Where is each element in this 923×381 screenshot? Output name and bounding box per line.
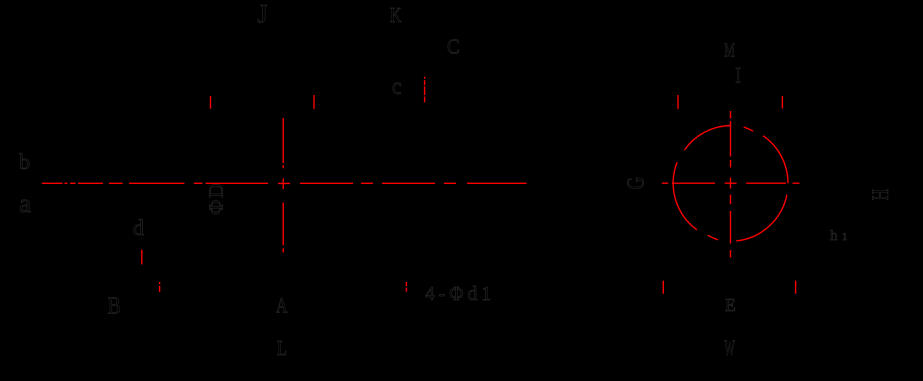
tick M-left xyxy=(677,95,679,109)
svg-text:C: C xyxy=(447,35,460,59)
svg-text:a: a xyxy=(19,189,31,218)
tick c-mark (dashed) xyxy=(424,77,426,103)
svg-text:b: b xyxy=(19,149,30,174)
wire: left-view horizontal centerline a-b xyxy=(42,182,527,184)
node: center cross of end view xyxy=(725,178,737,189)
tick d-mark xyxy=(141,250,143,265)
tick 4-mark (dashed) xyxy=(405,282,407,292)
tick J-mark xyxy=(210,96,212,109)
tick E-left xyxy=(662,281,664,294)
wire: end-view horizontal centerline G xyxy=(662,182,800,184)
node O: center cross of left view xyxy=(278,179,290,190)
svg-text:E: E xyxy=(725,295,736,315)
svg-text:G: G xyxy=(624,177,650,190)
tick M-right xyxy=(781,96,783,109)
wire: left-view vertical centerline xyxy=(282,118,284,253)
svg-text:M: M xyxy=(724,39,735,61)
svg-text:1: 1 xyxy=(842,232,847,243)
tick K-mark xyxy=(313,95,315,109)
svg-text:B: B xyxy=(108,294,121,320)
svg-text:H: H xyxy=(868,189,893,201)
wire: end-view vertical centerline xyxy=(730,111,732,258)
svg-text:A: A xyxy=(276,292,288,317)
tick B-mark (dashed) xyxy=(159,282,161,292)
svg-text:W: W xyxy=(724,335,735,360)
svg-text:J: J xyxy=(258,0,268,29)
svg-text:h: h xyxy=(830,228,838,244)
svg-text:L: L xyxy=(277,336,287,360)
svg-text:I: I xyxy=(735,62,741,87)
tick E-right xyxy=(795,281,797,294)
svg-text:K: K xyxy=(390,3,402,27)
circle: end view outline (with centerline gaps) xyxy=(763,136,788,184)
svg-text:c: c xyxy=(392,74,401,100)
svg-text:d: d xyxy=(133,215,144,240)
